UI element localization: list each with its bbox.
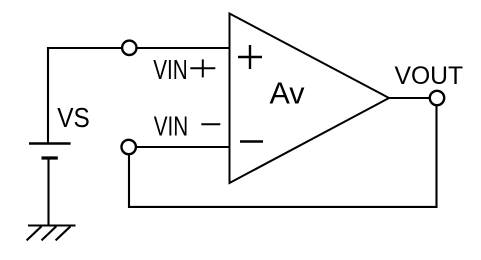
svg-text:VOUT: VOUT — [395, 63, 464, 90]
wire: VIN- node to op-amp inverting input — [129, 146, 230, 148]
wire: op-amp output to VOUT node — [389, 97, 437, 99]
wire: left vertical from top wire down to battery — [47, 47, 49, 144]
op-amp U1 triangle — [230, 14, 390, 184]
wire: VS top lead to VIN+ node (horizontal) — [47, 47, 230, 49]
label VIN- — [154, 111, 221, 142]
node: VIN- input terminal (open circle) — [122, 140, 136, 154]
wire: battery negative to ground — [47, 158, 49, 226]
node: VIN+ input terminal (open circle) — [122, 41, 136, 55]
op-amp minus sign (inverting input) — [240, 140, 263, 143]
label VIN+ — [153, 54, 215, 85]
battery VS negative plate (short) — [42, 156, 58, 159]
node: VOUT output terminal (open circle) — [430, 91, 444, 105]
svg-text:VIN: VIN — [154, 111, 189, 142]
ground — [27, 226, 76, 241]
battery VS positive plate (long) — [29, 142, 71, 145]
wire: feedback loop (VIN- node down, across bottom, up to output) — [129, 98, 437, 207]
svg-text:VS: VS — [57, 102, 90, 133]
svg-text:Av: Av — [270, 77, 306, 111]
svg-text:VIN: VIN — [153, 54, 188, 85]
op-amp plus sign (non-inverting input) — [238, 45, 262, 69]
